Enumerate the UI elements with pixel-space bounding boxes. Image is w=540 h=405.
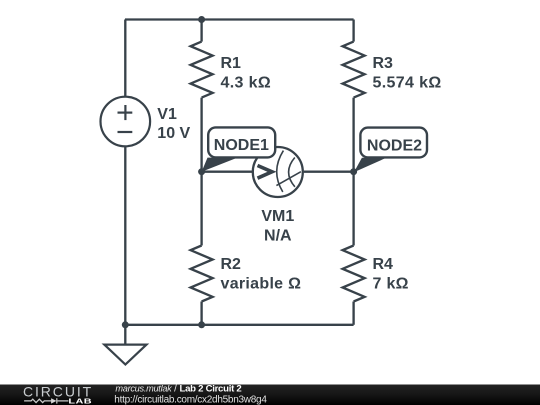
wire NODE1 to R2 top xyxy=(200,172,202,246)
svg-text:V1: V1 xyxy=(157,106,177,123)
wire top from R1 top to R3 top xyxy=(202,18,354,20)
svg-text:R2: R2 xyxy=(221,256,242,273)
ground xyxy=(104,345,146,365)
ground lead wire xyxy=(124,325,126,345)
svg-text:7 kΩ: 7 kΩ xyxy=(373,276,409,293)
resistor R2 xyxy=(191,246,213,302)
svg-text:R1: R1 xyxy=(221,55,242,72)
wire voltmeter right terminal to NODE2 xyxy=(304,171,354,173)
wire NODE1 to voltmeter left terminal xyxy=(202,171,252,173)
junction node bottom left (ground) xyxy=(122,321,129,328)
svg-text:NODE2: NODE2 xyxy=(367,137,422,154)
wire left rail lower (V1 minus terminal to bottom wire) xyxy=(124,146,126,325)
junction node NODE2 xyxy=(350,168,357,175)
resistor R1 xyxy=(191,42,213,98)
label R1 value xyxy=(221,55,272,92)
wire top from V1 rail to R1 top xyxy=(125,18,202,20)
label VM1 value xyxy=(261,208,294,244)
wire left rail upper (top wire to V1 plus terminal) xyxy=(124,20,126,97)
junction node bottom (R2) xyxy=(198,321,205,328)
svg-text:marcus.mutlak / Lab 2 Circuit: marcus.mutlak / Lab 2 Circuit 2 xyxy=(115,384,241,395)
svg-text:NODE1: NODE1 xyxy=(214,137,269,154)
node label NODE1 xyxy=(202,127,276,171)
svg-text:LAB: LAB xyxy=(68,397,92,405)
svg-text:http://circuitlab.com/cx2dh5bn: http://circuitlab.com/cx2dh5bn3w8g4 xyxy=(114,394,267,405)
wire R2 bottom lead xyxy=(200,302,202,325)
wire bottom from ground junction to R4 bottom xyxy=(125,324,354,326)
wire NODE2 to R4 top xyxy=(352,172,354,246)
svg-text:variable Ω: variable Ω xyxy=(221,276,302,293)
junction node NODE1 xyxy=(198,168,205,175)
svg-text:N/A: N/A xyxy=(264,227,292,244)
label V1 value xyxy=(157,106,190,142)
wire R1 top lead xyxy=(200,20,202,42)
wire R3 bottom lead to NODE2 xyxy=(352,98,354,172)
svg-text:R4: R4 xyxy=(373,256,394,273)
resistor R3 xyxy=(343,42,365,98)
wire R3 top lead xyxy=(352,20,354,42)
svg-text:R3: R3 xyxy=(373,55,394,72)
logo resistor-diode glyph xyxy=(24,398,68,403)
svg-text:5.574 kΩ: 5.574 kΩ xyxy=(373,75,442,92)
junction node top (R1/V1) xyxy=(198,16,205,23)
svg-text:4.3 kΩ: 4.3 kΩ xyxy=(221,75,272,92)
voltage source V1 xyxy=(101,97,151,147)
svg-text:10 V: 10 V xyxy=(157,125,190,142)
resistor R4 xyxy=(343,246,365,302)
svg-text:VM1: VM1 xyxy=(261,208,294,225)
label R2 value xyxy=(221,256,302,293)
node label NODE2 xyxy=(354,128,427,173)
logo LAB text xyxy=(68,397,92,405)
label R4 value xyxy=(373,256,409,293)
wire R1 bottom lead to NODE1 xyxy=(200,98,202,172)
label R3 value xyxy=(373,55,442,92)
voltmeter VM1 xyxy=(253,147,303,197)
wire R4 bottom lead xyxy=(352,302,354,325)
